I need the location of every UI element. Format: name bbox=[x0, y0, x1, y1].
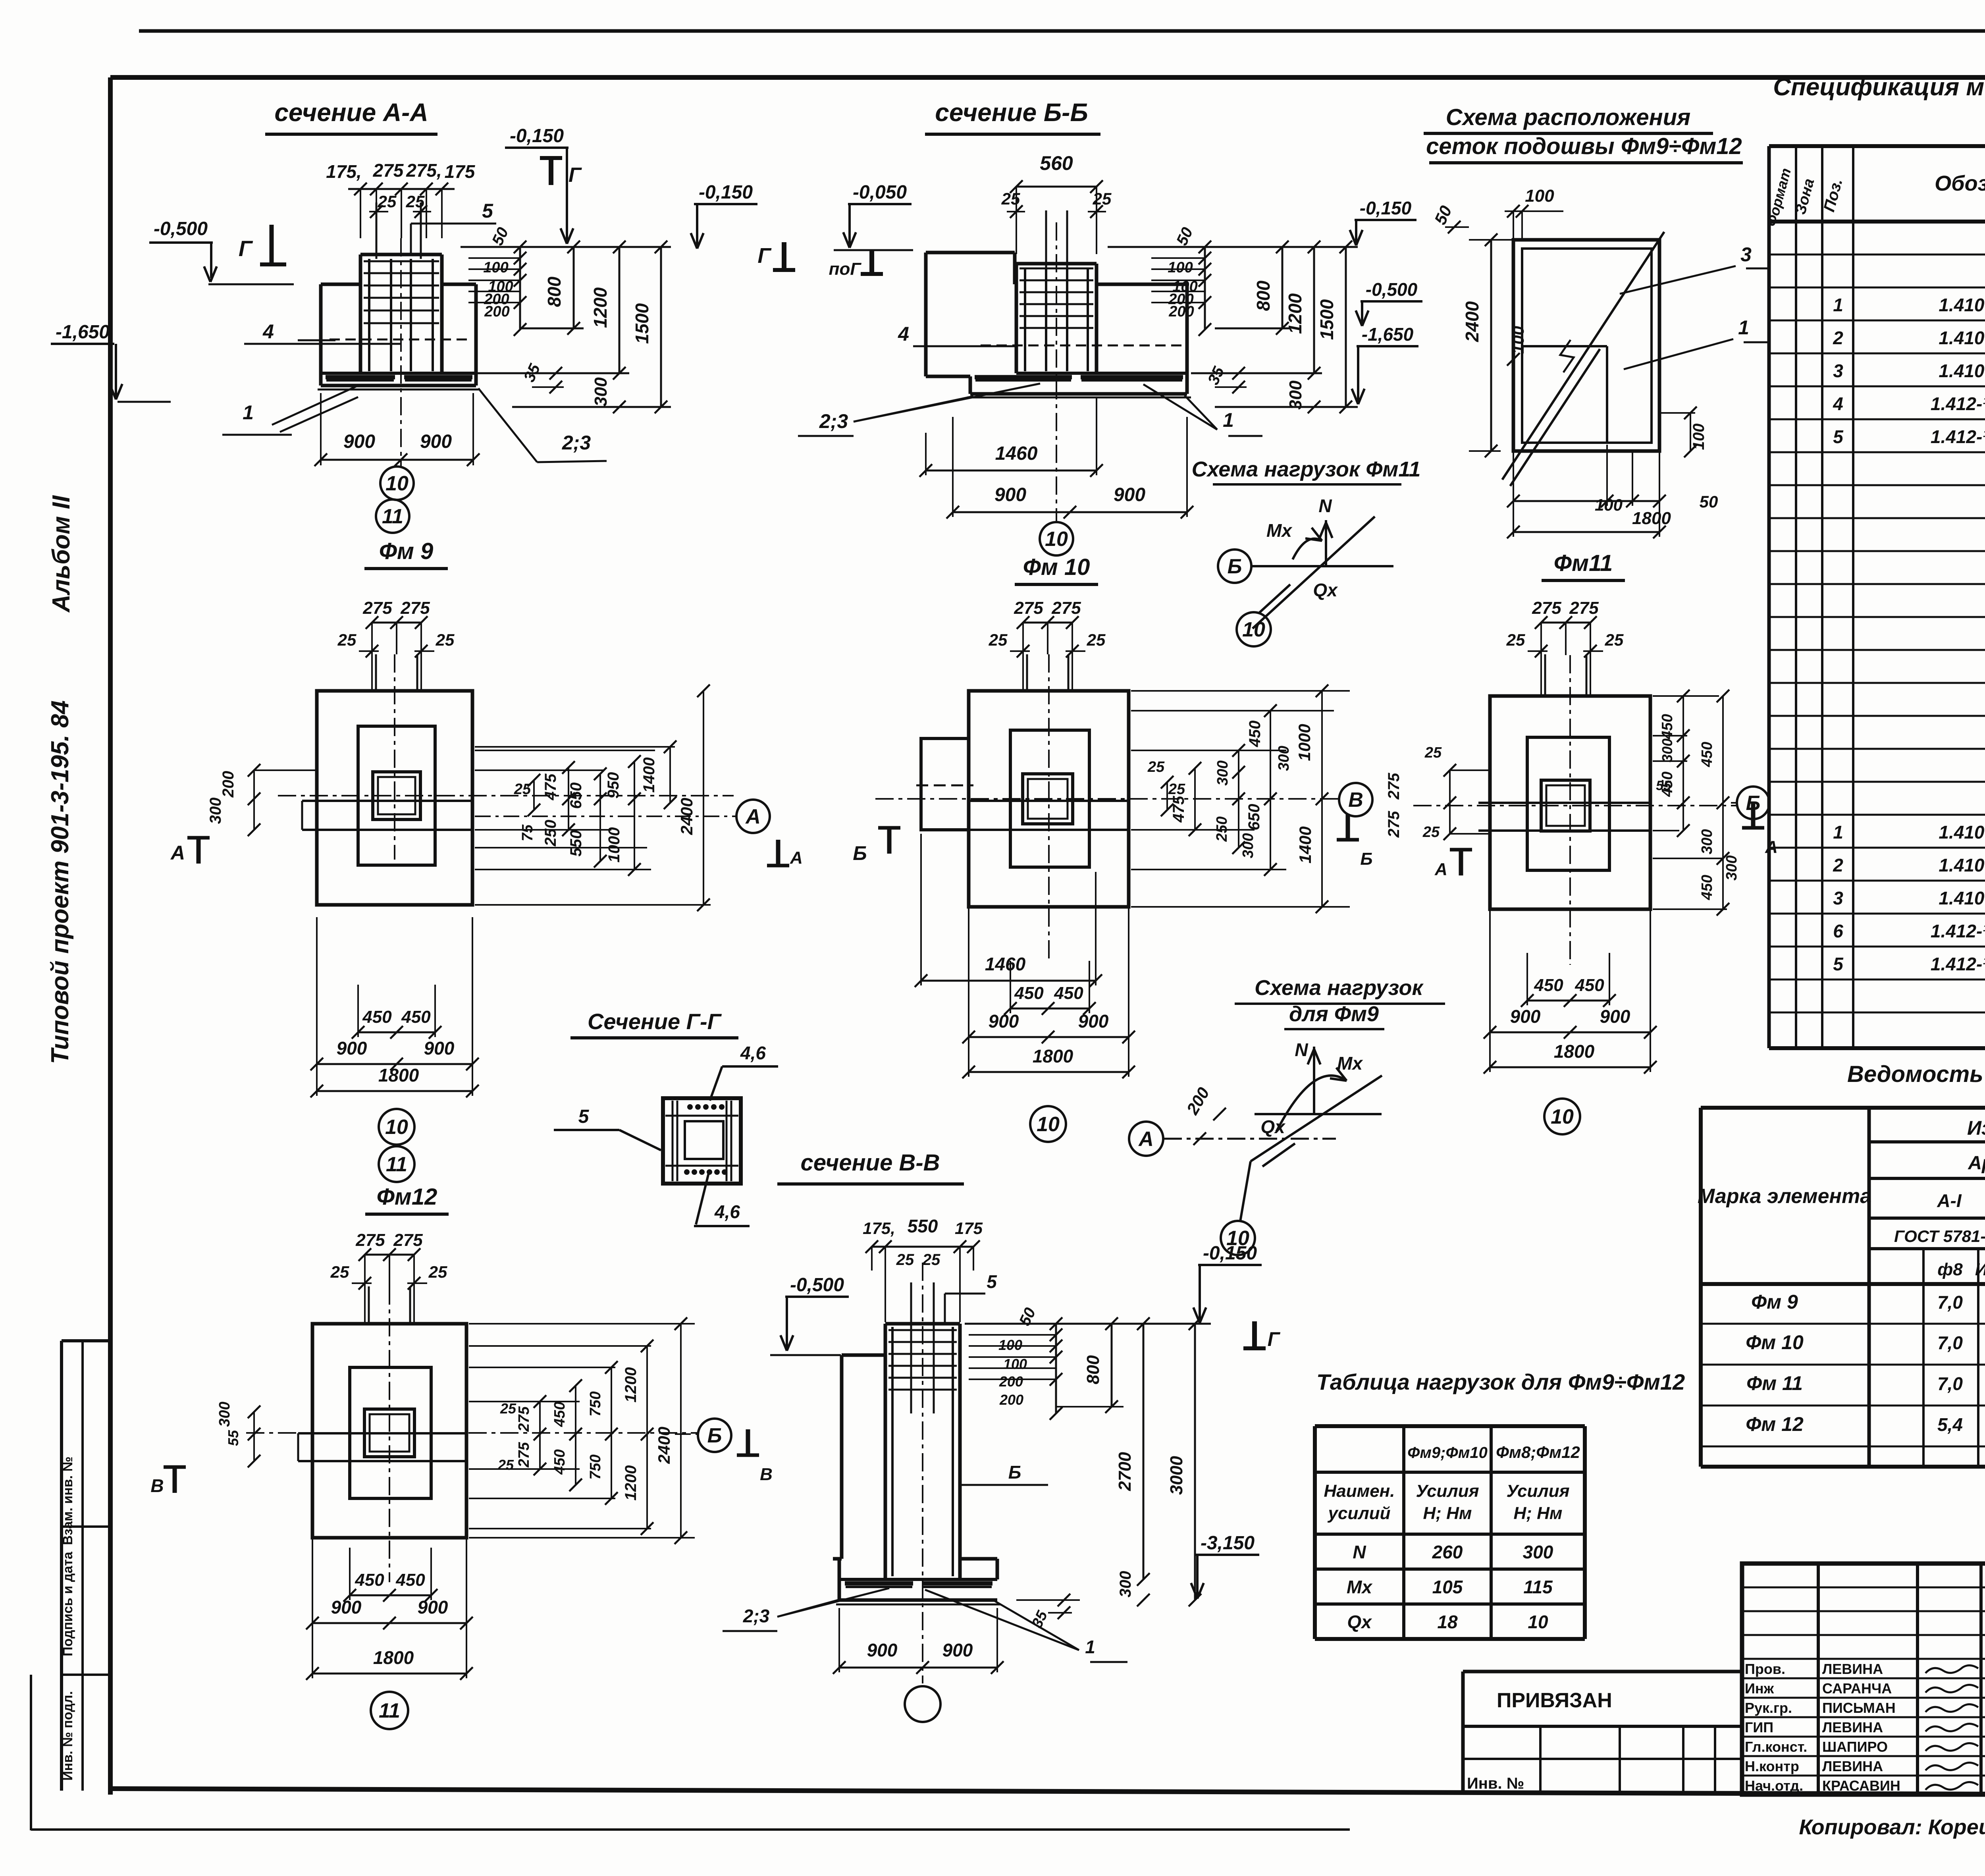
plan Фм12 step bbox=[350, 1367, 431, 1498]
svg-text:ЛЕВИНА: ЛЕВИНА bbox=[1822, 1661, 1883, 1677]
svg-text:Qх: Qх bbox=[1347, 1612, 1372, 1632]
section B-B bottom dims bbox=[925, 433, 927, 475]
svg-text:275: 275 bbox=[1569, 598, 1599, 618]
svg-text:450: 450 bbox=[551, 1449, 568, 1475]
svg-text:5: 5 bbox=[987, 1271, 997, 1292]
plan FM12 right dims bbox=[469, 1345, 651, 1347]
svg-text:Усилия: Усилия bbox=[1416, 1481, 1479, 1501]
svg-text:300: 300 bbox=[1276, 746, 1292, 771]
svg-text:1400: 1400 bbox=[1296, 826, 1314, 863]
plan FM9 axis circle A bbox=[736, 800, 770, 833]
svg-text:Б: Б bbox=[707, 1424, 722, 1447]
svg-text:25: 25 bbox=[436, 630, 455, 649]
svg-text:300: 300 bbox=[1523, 1542, 1553, 1562]
svg-text:550: 550 bbox=[567, 830, 585, 857]
axis circles 10 11 bbox=[380, 467, 414, 500]
svg-text:750: 750 bbox=[587, 1454, 604, 1479]
svg-text:1800: 1800 bbox=[373, 1647, 414, 1668]
svg-text:25: 25 bbox=[406, 192, 425, 211]
plan Фм 10 mesh band bbox=[969, 800, 1129, 802]
vedomost table bbox=[1701, 1106, 1985, 1110]
svg-text:Таблица нагрузок для Фм9÷Фм12: Таблица нагрузок для Фм9÷Фм12 bbox=[1316, 1369, 1685, 1394]
svg-text:Арматура класса: Арматура класса bbox=[1968, 1153, 1985, 1174]
plan FM9 section marks bbox=[197, 838, 201, 864]
svg-text:200: 200 bbox=[1168, 303, 1194, 320]
svg-text:75: 75 bbox=[519, 824, 536, 841]
svg-text:1.410-2 Вып.1: 1.410-2 Вып.1 bbox=[1939, 822, 1985, 843]
svg-text:2;3: 2;3 bbox=[743, 1606, 770, 1626]
svg-text:1000: 1000 bbox=[1295, 724, 1314, 761]
svg-text:300: 300 bbox=[1117, 1571, 1134, 1598]
svg-text:Г: Г bbox=[1268, 1328, 1281, 1350]
svg-text:100: 100 bbox=[1509, 326, 1527, 354]
svg-text:5: 5 bbox=[578, 1106, 590, 1127]
svg-text:1: 1 bbox=[1085, 1637, 1095, 1657]
svg-text:950: 950 bbox=[605, 772, 622, 799]
svg-text:-0,150: -0,150 bbox=[1360, 198, 1412, 218]
svg-text:25: 25 bbox=[1422, 824, 1440, 841]
plan FM10 section marks bbox=[887, 828, 892, 854]
svg-text:900: 900 bbox=[418, 1597, 448, 1618]
svg-text:1200: 1200 bbox=[590, 287, 611, 328]
plan Фм11 step bbox=[1527, 737, 1609, 870]
svg-text:ЛЕВИНА: ЛЕВИНА bbox=[1822, 1719, 1883, 1735]
bottom trim line bbox=[31, 1828, 1350, 1831]
svg-text:1.410-2 Вып.1: 1.410-2 Вып.1 bbox=[1939, 295, 1985, 315]
svg-text:3000: 3000 bbox=[1167, 1456, 1186, 1495]
svg-text:Фм11: Фм11 bbox=[1554, 550, 1613, 576]
svg-text:Инв. № подл.: Инв. № подл. bbox=[60, 1691, 75, 1781]
section V-V right dims bbox=[969, 1334, 1056, 1336]
svg-text:11: 11 bbox=[386, 1153, 407, 1176]
svg-text:усилий: усилий bbox=[1328, 1504, 1391, 1523]
svg-text:Фм8;Фм12: Фм8;Фм12 bbox=[1496, 1443, 1580, 1461]
svg-text:275: 275 bbox=[1532, 598, 1561, 618]
svg-text:250: 250 bbox=[1214, 816, 1230, 842]
svg-text:1: 1 bbox=[1223, 409, 1234, 431]
svg-text:18: 18 bbox=[1437, 1612, 1458, 1632]
svg-text:200: 200 bbox=[999, 1392, 1023, 1408]
svg-text:Копировал: Корецкая: Копировал: Корецкая bbox=[1799, 1815, 1985, 1839]
svg-text:1800: 1800 bbox=[1632, 509, 1671, 528]
svg-text:275: 275 bbox=[516, 1442, 532, 1467]
plan Фм 9 column bbox=[373, 772, 420, 819]
plan bottom dims bbox=[1527, 1000, 1609, 1002]
svg-text:1: 1 bbox=[1738, 316, 1749, 339]
svg-text:25: 25 bbox=[1147, 759, 1165, 775]
svg-text:450: 450 bbox=[362, 1007, 392, 1027]
svg-text:275: 275 bbox=[393, 1230, 423, 1250]
svg-text:Н; Нм: Н; Нм bbox=[1423, 1504, 1472, 1523]
svg-text:800: 800 bbox=[1253, 280, 1274, 311]
svg-text:1.410-2 Вып.1: 1.410-2 Вып.1 bbox=[1939, 888, 1985, 908]
svg-text:560: 560 bbox=[1040, 152, 1073, 174]
plan Фм 10 top dims bbox=[1023, 622, 1072, 624]
svg-text:Рук.гр.: Рук.гр. bbox=[1745, 1700, 1792, 1716]
svg-text:Марка элемента: Марка элемента bbox=[1698, 1185, 1871, 1208]
svg-text:25: 25 bbox=[922, 1251, 940, 1269]
svg-text:900: 900 bbox=[1510, 1006, 1541, 1027]
section V-V bottom dims bbox=[838, 1608, 840, 1672]
svg-text:В: В bbox=[760, 1465, 773, 1484]
svg-text:6: 6 bbox=[1833, 921, 1843, 941]
svg-text:105: 105 bbox=[1432, 1577, 1463, 1597]
svg-text:ГОСТ 5781-82: ГОСТ 5781-82 bbox=[1894, 1227, 1985, 1246]
svg-text:3: 3 bbox=[1833, 361, 1843, 381]
plan FM11 axis circle B bbox=[1737, 787, 1769, 819]
svg-text:25: 25 bbox=[514, 781, 531, 798]
svg-text:100: 100 bbox=[483, 259, 508, 276]
section V-V footing bbox=[960, 1557, 997, 1561]
svg-text:10: 10 bbox=[385, 472, 409, 495]
svg-text:В: В bbox=[150, 1475, 164, 1496]
svg-text:Фм 9: Фм 9 bbox=[379, 538, 434, 564]
svg-text:25: 25 bbox=[1506, 630, 1525, 649]
svg-text:ПИСЬМАН: ПИСЬМАН bbox=[1822, 1700, 1896, 1716]
svg-text:А-I: А-I bbox=[1937, 1190, 1962, 1211]
svg-text:900: 900 bbox=[994, 484, 1026, 505]
svg-text:25: 25 bbox=[896, 1251, 914, 1269]
title block bbox=[1742, 1564, 1985, 1795]
svg-text:-0,050: -0,050 bbox=[853, 182, 907, 203]
svg-text:10: 10 bbox=[1528, 1612, 1548, 1632]
svg-text:5: 5 bbox=[1833, 426, 1844, 447]
svg-text:300: 300 bbox=[1659, 738, 1675, 762]
section V-V top dims bbox=[872, 1246, 973, 1248]
svg-text:900: 900 bbox=[1078, 1011, 1109, 1032]
svg-text:1200: 1200 bbox=[1285, 293, 1305, 334]
svg-text:550: 550 bbox=[908, 1216, 938, 1236]
svg-text:А: А bbox=[1434, 860, 1447, 879]
svg-text:2;3: 2;3 bbox=[562, 432, 591, 454]
plan FM9 right dims bbox=[475, 750, 655, 751]
svg-text:Г: Г bbox=[239, 236, 253, 261]
svg-text:275,: 275, bbox=[406, 160, 442, 181]
svg-text:3: 3 bbox=[1833, 888, 1843, 908]
plan FM12 axis circle B bbox=[698, 1419, 731, 1452]
svg-text:1000: 1000 bbox=[605, 827, 623, 863]
svg-text:Нач.отд.: Нач.отд. bbox=[1745, 1778, 1803, 1794]
svg-text:Обозначение: Обозначение bbox=[1935, 172, 1985, 195]
svg-text:100: 100 bbox=[1525, 186, 1554, 206]
plan Фм 10 column bbox=[1023, 774, 1073, 824]
svg-text:275: 275 bbox=[1014, 598, 1043, 618]
plan FM10 right dims bbox=[1131, 710, 1334, 711]
svg-text:-0,150: -0,150 bbox=[510, 125, 564, 147]
svg-text:ПРИВЯЗАН: ПРИВЯЗАН bbox=[1497, 1689, 1612, 1712]
section A-A rebar bbox=[368, 259, 370, 371]
svg-text:1460: 1460 bbox=[985, 954, 1026, 974]
left paper edge bbox=[30, 1675, 32, 1830]
svg-text:100: 100 bbox=[1168, 259, 1193, 276]
svg-text:1.410-2 Вып.1: 1.410-2 Вып.1 bbox=[1939, 328, 1985, 348]
svg-text:Схема расположения: Схема расположения bbox=[1446, 104, 1691, 130]
svg-text:25: 25 bbox=[1087, 630, 1106, 649]
svg-text:поГ: поГ bbox=[829, 259, 862, 279]
svg-text:300: 300 bbox=[1214, 760, 1231, 785]
svg-text:Мх: Мх bbox=[1266, 520, 1293, 541]
section A-A bottom dims bbox=[320, 393, 322, 465]
svg-text:Г: Г bbox=[569, 164, 582, 187]
drawing frame bbox=[110, 75, 1985, 80]
svg-text:450: 450 bbox=[551, 1402, 568, 1427]
section A-A top dims bbox=[348, 188, 455, 190]
load scheme Fm9 bbox=[1129, 1122, 1163, 1156]
svg-text:475: 475 bbox=[1170, 796, 1187, 823]
section mark G right bbox=[549, 158, 553, 185]
plan Фм12 centerlines bbox=[389, 1286, 390, 1582]
svg-text:450: 450 bbox=[1699, 742, 1715, 767]
top trim line bbox=[139, 29, 1985, 33]
svg-text:Б: Б bbox=[1008, 1462, 1021, 1483]
svg-text:1.410-2 Вып.1: 1.410-2 Вып.1 bbox=[1939, 855, 1985, 875]
section A-A mesh lines bbox=[326, 375, 395, 380]
spec table bbox=[1767, 146, 1771, 1048]
svg-text:10: 10 bbox=[385, 1116, 408, 1139]
svg-text:Ведомость расхода стали на: Ведомость расхода стали на элемент, кГ bbox=[1847, 1061, 1985, 1087]
svg-text:Б: Б bbox=[1228, 555, 1242, 578]
svg-text:Фм9;Фм10: Фм9;Фм10 bbox=[1407, 1444, 1488, 1461]
svg-text:4: 4 bbox=[1833, 393, 1843, 414]
section V-V centerline bbox=[922, 1263, 923, 1683]
load table bbox=[1313, 1426, 1317, 1639]
svg-text:450: 450 bbox=[1054, 983, 1083, 1003]
svg-text:Схема нагрузок: Схема нагрузок bbox=[1255, 976, 1424, 1000]
svg-text:300: 300 bbox=[207, 798, 224, 824]
svg-text:Qх: Qх bbox=[1260, 1116, 1286, 1137]
svg-text:450: 450 bbox=[1699, 875, 1715, 900]
svg-text:25: 25 bbox=[1168, 781, 1185, 798]
svg-text:11: 11 bbox=[382, 505, 403, 528]
svg-text:55: 55 bbox=[1656, 778, 1671, 793]
svg-text:300: 300 bbox=[591, 377, 611, 407]
svg-text:300: 300 bbox=[216, 1402, 233, 1427]
section A-A centerline bbox=[400, 238, 402, 467]
svg-text:175,: 175, bbox=[863, 1219, 895, 1238]
svg-text:Усилия: Усилия bbox=[1506, 1481, 1569, 1501]
mesh scheme bottom dims bbox=[1513, 500, 1659, 502]
svg-text:25: 25 bbox=[497, 1457, 514, 1473]
svg-text:сечение В-В: сечение В-В bbox=[800, 1150, 940, 1176]
section B-B mesh lines bbox=[975, 375, 1072, 380]
svg-text:Подпись и дата: Подпись и дата bbox=[60, 1551, 75, 1656]
svg-text:Инв. №: Инв. № bbox=[1467, 1775, 1524, 1792]
svg-text:1.410-2 Вып.1: 1.410-2 Вып.1 bbox=[1939, 361, 1985, 381]
svg-text:1: 1 bbox=[1833, 822, 1843, 843]
svg-text:100: 100 bbox=[1003, 1356, 1027, 1372]
plan Фм12 top dims bbox=[365, 1254, 414, 1256]
svg-text:450: 450 bbox=[401, 1007, 431, 1027]
svg-text:115: 115 bbox=[1523, 1577, 1553, 1597]
svg-text:900: 900 bbox=[989, 1011, 1019, 1032]
svg-text:900: 900 bbox=[331, 1597, 362, 1618]
svg-text:ЛЕВИНА: ЛЕВИНА bbox=[1822, 1758, 1883, 1774]
svg-text:-0,500: -0,500 bbox=[790, 1274, 844, 1296]
plan Фм 10 step bbox=[1010, 730, 1089, 867]
svg-text:Б: Б bbox=[1746, 792, 1761, 815]
svg-text:275: 275 bbox=[362, 598, 392, 618]
svg-text:300: 300 bbox=[1286, 380, 1305, 410]
privyazan table bbox=[1463, 1670, 1742, 1674]
svg-text:2400: 2400 bbox=[655, 1427, 673, 1464]
svg-text:275: 275 bbox=[516, 1406, 532, 1432]
svg-text:2700: 2700 bbox=[1115, 1452, 1135, 1491]
svg-text:200: 200 bbox=[484, 303, 509, 320]
svg-text:100: 100 bbox=[1690, 424, 1707, 450]
svg-text:10: 10 bbox=[1551, 1105, 1574, 1128]
svg-text:300: 300 bbox=[1723, 855, 1740, 880]
section V-V mesh lines bbox=[845, 1581, 913, 1586]
svg-text:N: N bbox=[1318, 496, 1332, 516]
section G-G square bbox=[663, 1098, 741, 1184]
svg-text:275: 275 bbox=[400, 598, 430, 618]
plan Фм11 column bbox=[1541, 780, 1590, 831]
svg-text:Qх: Qх bbox=[1313, 580, 1338, 600]
section B-B centerline bbox=[1056, 222, 1057, 521]
plan FM11 section marks bbox=[1459, 850, 1463, 875]
svg-text:25: 25 bbox=[330, 1263, 349, 1281]
svg-text:1400: 1400 bbox=[640, 758, 658, 793]
svg-text:650: 650 bbox=[567, 783, 585, 809]
plan Фм 9 top dims bbox=[372, 622, 421, 624]
svg-text:100: 100 bbox=[998, 1337, 1022, 1353]
mesh scheme squares bbox=[1513, 240, 1659, 451]
plan FM12 section marks bbox=[173, 1467, 177, 1493]
svg-text:для Фм9: для Фм9 bbox=[1289, 1002, 1379, 1026]
svg-text:А: А bbox=[1765, 837, 1778, 857]
svg-text:Н.контр: Н.контр bbox=[1745, 1758, 1799, 1774]
section V-V wall bbox=[840, 1355, 844, 1559]
svg-text:4: 4 bbox=[898, 323, 909, 345]
svg-text:450: 450 bbox=[1659, 714, 1676, 739]
svg-text:275: 275 bbox=[1385, 773, 1403, 800]
svg-text:1500: 1500 bbox=[1316, 299, 1337, 340]
section B-B top dims bbox=[1016, 186, 1097, 188]
svg-text:7,0: 7,0 bbox=[1937, 1332, 1963, 1353]
svg-text:55: 55 bbox=[225, 1430, 241, 1446]
svg-text:2: 2 bbox=[1833, 328, 1843, 348]
svg-text:450: 450 bbox=[1246, 721, 1264, 748]
plan Фм 9 outer bbox=[317, 691, 472, 905]
svg-text:2400: 2400 bbox=[1462, 301, 1482, 342]
left attribute strip bbox=[62, 1339, 113, 1342]
svg-text:Фм12: Фм12 bbox=[377, 1184, 437, 1210]
svg-text:100: 100 bbox=[1595, 496, 1623, 514]
plan Фм12 column bbox=[364, 1409, 414, 1457]
svg-text:1500: 1500 bbox=[632, 303, 652, 344]
svg-text:1.412-¹/77 Вып.3: 1.412-¹/77 Вып.3 bbox=[1931, 426, 1985, 447]
plan bottom dims bbox=[1010, 1008, 1089, 1010]
svg-text:1460: 1460 bbox=[995, 443, 1038, 464]
svg-text:25: 25 bbox=[1605, 630, 1624, 649]
svg-text:475: 475 bbox=[542, 773, 559, 800]
svg-text:N: N bbox=[1295, 1039, 1308, 1060]
plan FM11 right dims bbox=[1653, 695, 1719, 697]
svg-text:1: 1 bbox=[1833, 295, 1843, 315]
plan Фм11 centerlines bbox=[1569, 655, 1571, 965]
section B-B wall bbox=[924, 253, 928, 376]
svg-text:Фм 9: Фм 9 bbox=[1751, 1291, 1798, 1313]
svg-text:Фм 10: Фм 10 bbox=[1746, 1331, 1804, 1353]
svg-text:5: 5 bbox=[1833, 954, 1844, 974]
svg-text:175: 175 bbox=[445, 161, 476, 182]
svg-text:50: 50 bbox=[1700, 492, 1718, 511]
svg-text:200: 200 bbox=[999, 1373, 1023, 1390]
svg-text:4: 4 bbox=[262, 320, 274, 343]
svg-text:2: 2 bbox=[1833, 855, 1843, 875]
svg-text:5,4: 5,4 bbox=[1937, 1414, 1963, 1435]
plan Фм 9 centerlines bbox=[394, 654, 395, 860]
plan Фм11 top dims bbox=[1541, 622, 1590, 624]
svg-text:А: А bbox=[790, 848, 803, 868]
svg-text:-1,650: -1,650 bbox=[56, 322, 110, 343]
svg-text:Альбом II: Альбом II bbox=[48, 495, 75, 613]
section B-B footing bbox=[1097, 283, 1187, 286]
svg-text:1.412-¹/77 Вып.3: 1.412-¹/77 Вып.3 bbox=[1931, 954, 1985, 974]
svg-text:25: 25 bbox=[1424, 744, 1442, 761]
svg-text:Б: Б bbox=[853, 842, 867, 864]
plan Фм12 outer bbox=[312, 1324, 466, 1538]
svg-text:Изделия арматурные: Изделия арматурные bbox=[1967, 1117, 1985, 1139]
svg-text:-3,150: -3,150 bbox=[1201, 1533, 1255, 1554]
svg-text:11: 11 bbox=[379, 1699, 400, 1722]
svg-text:25: 25 bbox=[428, 1263, 447, 1281]
svg-text:Взам. инв. №: Взам. инв. № bbox=[60, 1456, 75, 1545]
plan Фм 9 step bbox=[358, 726, 435, 865]
plan Фм 9 mesh band bbox=[317, 800, 472, 802]
section B-B rebar bbox=[1024, 268, 1026, 371]
svg-text:-0,500: -0,500 bbox=[154, 218, 208, 239]
svg-text:750: 750 bbox=[587, 1391, 604, 1416]
svg-text:800: 800 bbox=[544, 276, 565, 307]
plan FM10 wall stub bbox=[921, 738, 969, 830]
svg-text:900: 900 bbox=[337, 1038, 367, 1059]
svg-text:275: 275 bbox=[373, 160, 404, 181]
svg-text:Б: Б bbox=[1360, 849, 1372, 869]
svg-text:300: 300 bbox=[1240, 833, 1257, 858]
plan FM12 mesh stub left bbox=[298, 1432, 312, 1434]
svg-text:10: 10 bbox=[1045, 528, 1068, 551]
mesh scheme right dim bbox=[1690, 413, 1691, 451]
svg-text:Г: Г bbox=[757, 244, 772, 268]
svg-text:1.412-¹/77 Вып.3: 1.412-¹/77 Вып.3 bbox=[1931, 921, 1985, 941]
plan bottom dims bbox=[358, 1032, 435, 1033]
svg-text:Фм 12: Фм 12 bbox=[1746, 1413, 1804, 1435]
svg-text:260: 260 bbox=[1432, 1542, 1463, 1562]
svg-text:7,0: 7,0 bbox=[1937, 1373, 1963, 1394]
svg-text:1800: 1800 bbox=[1033, 1046, 1073, 1066]
svg-text:Мх: Мх bbox=[1337, 1053, 1363, 1074]
svg-text:25: 25 bbox=[337, 630, 357, 649]
svg-text:25: 25 bbox=[500, 1400, 516, 1417]
svg-text:175: 175 bbox=[955, 1219, 983, 1238]
plan Фм 10 outer bbox=[969, 691, 1129, 907]
svg-text:Сечение Г-Г: Сечение Г-Г bbox=[588, 1009, 722, 1034]
svg-text:650: 650 bbox=[1245, 804, 1263, 831]
svg-text:Схема нагрузок Фм11: Схема нагрузок Фм11 bbox=[1192, 457, 1421, 481]
svg-text:450: 450 bbox=[355, 1570, 384, 1590]
svg-text:1200: 1200 bbox=[622, 1465, 640, 1501]
plan Фм11 mesh band bbox=[1490, 802, 1650, 804]
svg-text:Мх: Мх bbox=[1347, 1577, 1373, 1597]
svg-text:Спецификация монолитных фунд: Спецификация монолитных фундаментов Фм9÷… bbox=[1773, 73, 1985, 101]
plan FM11 mesh stub left bbox=[1478, 802, 1490, 804]
svg-text:Наимен.: Наимен. bbox=[1324, 1481, 1395, 1501]
plan Фм 10 centerlines bbox=[1048, 654, 1050, 961]
svg-text:2;3: 2;3 bbox=[819, 410, 848, 432]
svg-text:ф8: ф8 bbox=[1937, 1260, 1963, 1279]
svg-text:КРАСАВИН: КРАСАВИН bbox=[1822, 1778, 1900, 1794]
